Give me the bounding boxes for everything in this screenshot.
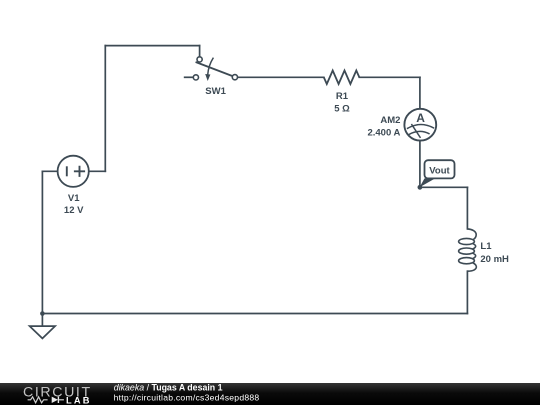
wire [466, 271, 468, 313]
svg-text:V1: V1 [68, 193, 80, 204]
svg-text:Vout: Vout [429, 165, 450, 176]
svg-text:SW1: SW1 [205, 86, 226, 97]
wire [89, 170, 105, 172]
wire [42, 313, 467, 315]
svg-text:A: A [416, 111, 425, 125]
svg-text:5 Ω: 5 Ω [334, 104, 350, 115]
inductor L1 [459, 229, 477, 271]
wire [199, 46, 201, 57]
wire [359, 76, 420, 78]
svg-text:2.400 A: 2.400 A [367, 127, 400, 138]
node dot (Vout node) [418, 185, 423, 190]
wire [42, 170, 57, 172]
wire [419, 141, 421, 188]
svg-text:dikaeka / Tugas A desain 1: dikaeka / Tugas A desain 1 [114, 383, 223, 393]
node Vout flag [420, 160, 455, 187]
svg-text:20 mH: 20 mH [480, 254, 509, 265]
CircuitLab logo [23, 385, 92, 405]
wire [105, 45, 199, 47]
svg-text:R1: R1 [336, 91, 349, 102]
wire [238, 76, 324, 78]
svg-text:LAB: LAB [66, 396, 92, 405]
svg-text:L1: L1 [480, 241, 492, 252]
resistor R1 [324, 71, 360, 85]
ground [30, 326, 55, 338]
wire [41, 314, 43, 327]
wire [420, 186, 468, 188]
ammeter AM2 [404, 109, 436, 141]
wire [41, 171, 43, 313]
wire [104, 46, 106, 172]
svg-text:12 V: 12 V [64, 205, 84, 216]
voltage source V1 [58, 156, 89, 187]
junction dot [40, 311, 45, 316]
switch SW1 [184, 57, 238, 81]
wire [419, 77, 421, 109]
svg-text:http://circuitlab.com/cs3ed4se: http://circuitlab.com/cs3ed4sepd888 [114, 393, 260, 403]
svg-text:AM2: AM2 [380, 115, 400, 126]
wire [466, 187, 468, 229]
